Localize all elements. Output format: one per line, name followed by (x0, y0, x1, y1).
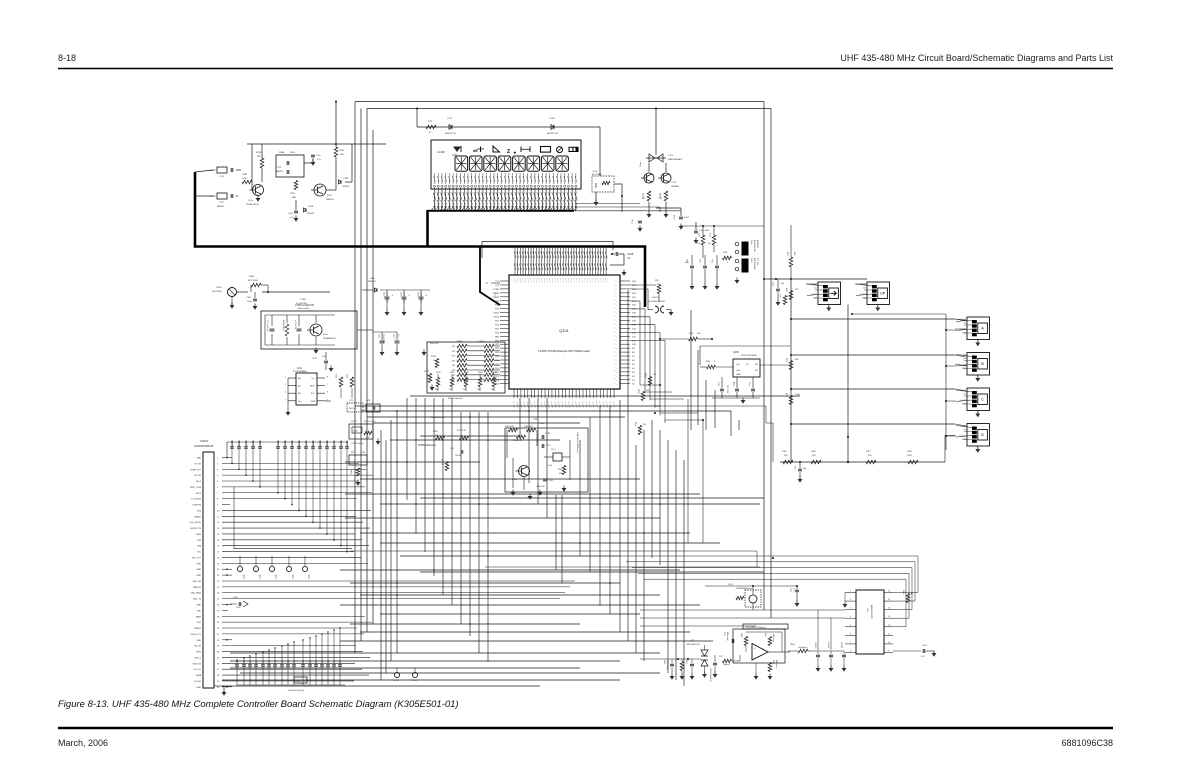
svg-text:(nx: (nx (964, 394, 967, 396)
svg-text:R/71: R/71 (699, 233, 701, 237)
svg-text:7A(wtvs): 7A(wtvs) (723, 663, 730, 666)
svg-text:33p: 33p (781, 283, 784, 285)
svg-text:RB521S: RB521S (368, 281, 376, 283)
svg-text:10k: 10k (463, 389, 466, 391)
svg-text:R1x6: R1x6 (764, 633, 766, 637)
svg-text:C/14: C/14 (297, 368, 303, 370)
svg-text:SOLDER SHORT: SOLDER SHORT (648, 301, 666, 303)
svg-text:2: 2 (850, 599, 851, 601)
svg-text:(nx: (nx (864, 288, 867, 290)
svg-text:(nx: (nx (964, 323, 967, 325)
svg-text:UWNBN: UWNBN (671, 186, 679, 188)
svg-text:TOC: TOC (197, 552, 202, 554)
svg-text:10k: 10k (426, 375, 429, 377)
svg-text:C132: C132 (795, 466, 797, 470)
svg-text:SDA: SDA (311, 400, 316, 403)
svg-text:March, 2006: March, 2006 (58, 738, 108, 748)
svg-text:R7B0: R7B0 (436, 372, 441, 374)
svg-text:1: 1 (285, 377, 286, 379)
svg-text:R115: R115 (785, 393, 787, 397)
svg-text:UHF 435-480 MHz Circuit Board/: UHF 435-480 MHz Circuit Board/Schematic … (840, 53, 1113, 63)
svg-text:56K: 56K (257, 156, 261, 158)
svg-text:MOD_COM: MOD_COM (190, 487, 201, 489)
svg-text:Ref.and (3): Ref.and (3) (298, 308, 309, 310)
svg-text:SAVE: SAVE (196, 615, 202, 618)
svg-text:14: 14 (888, 608, 890, 610)
svg-text:R/7x: R/7x (347, 374, 349, 378)
svg-text:0.001: 0.001 (685, 262, 689, 264)
svg-text:DATAO: DATAO (194, 515, 201, 518)
svg-text:C1N20-001: C1N20-001 (334, 440, 336, 449)
svg-text:SQL_MUTE: SQL_MUTE (190, 522, 202, 524)
svg-text:C/29: C/29 (312, 358, 317, 360)
svg-text:GENERATOR: GENERATOR (323, 337, 336, 340)
svg-text:0.001: 0.001 (684, 217, 690, 219)
svg-text:0.22: 0.22 (921, 656, 925, 658)
svg-text:C1N20-001: C1N20-001 (253, 440, 255, 449)
svg-text:EXOPUxGTA: EXOPUxGTA (753, 240, 756, 252)
svg-text:R7B3: R7B3 (478, 372, 483, 374)
svg-text:TEMP IN: TEMP IN (193, 587, 202, 589)
svg-text:DTMF IN: DTMF IN (193, 505, 202, 507)
svg-text:2SCA178Q-R: 2SCA178Q-R (246, 203, 259, 206)
svg-text:R105: R105 (249, 276, 255, 278)
svg-text:C1N20-001: C1N20-001 (246, 440, 248, 449)
svg-text:R779 4.7K: R779 4.7K (457, 430, 467, 432)
svg-text:UNLOCK: UNLOCK (192, 663, 201, 665)
svg-text:13: 13 (888, 616, 890, 618)
svg-text:10: 10 (888, 642, 890, 644)
svg-text:NSW: NSW (196, 534, 201, 536)
svg-text:dB: dB (473, 149, 478, 153)
svg-text:4: 4 (285, 399, 286, 401)
svg-text:UMW7N: UMW7N (326, 199, 334, 201)
svg-text:C79B: C79B (300, 299, 306, 301)
svg-text:C1N20-001: C1N20-001 (299, 440, 301, 449)
svg-text:x 2.2uF 5x: x 2.2uF 5x (294, 320, 296, 329)
svg-text:220K: 220K (242, 178, 247, 180)
svg-text:C/4x: C/4x (712, 259, 714, 263)
svg-text:10k: 10k (477, 389, 480, 391)
svg-text:16: 16 (888, 591, 890, 593)
svg-text:R7F: R7F (428, 121, 433, 123)
svg-text:Figure 8-13. UHF 435-480 MHz C: Figure 8-13. UHF 435-480 MHz Complete Co… (58, 699, 459, 710)
svg-text:R7S1: R7S1 (339, 150, 345, 152)
svg-text:10k: 10k (449, 389, 452, 391)
svg-text:C71a: C71a (668, 155, 674, 157)
svg-text:4.5V: 4.5V (548, 465, 553, 467)
svg-text:R1x7: R1x7 (685, 660, 687, 664)
svg-text:RYB2: RYB2 (637, 389, 639, 394)
svg-text:C/9x: C/9x (334, 660, 336, 663)
svg-text:C1N20-001: C1N20-001 (239, 440, 241, 449)
svg-text:R1B3: R1B3 (790, 644, 795, 646)
svg-text:MIC2: MIC2 (196, 493, 202, 495)
svg-text:C/9x: C/9x (263, 660, 265, 663)
svg-text:VSS1: VSS1 (493, 317, 499, 319)
svg-text:C112: C112 (393, 334, 395, 338)
svg-text:Z: Z (507, 149, 510, 155)
svg-text:R101: R101 (732, 382, 734, 386)
svg-text:C111: C111 (378, 334, 380, 338)
svg-text:CB-22P(x): CB-22P(x) (212, 291, 222, 293)
svg-text:3: 3 (285, 392, 286, 394)
svg-text:Q73B: Q73B (308, 206, 314, 208)
svg-text:C7/5: C7/5 (349, 400, 353, 402)
svg-text:11: 11 (888, 633, 890, 635)
svg-text:VSS3: VSS3 (493, 313, 499, 315)
svg-text:C114: C114 (383, 292, 385, 296)
svg-text:R113: R113 (785, 288, 787, 292)
svg-text:DAC_1V: DAC_1V (193, 598, 202, 601)
svg-text:0.22(knms)(x): 0.22(knms)(x) (666, 660, 668, 670)
svg-text:C/9x: C/9x (322, 660, 324, 663)
svg-text:47uF(16V): 47uF(16V) (382, 334, 384, 343)
svg-text:TX_MUTE: TX_MUTE (191, 499, 201, 501)
svg-text:DAC_RX: DAC_RX (193, 580, 202, 583)
svg-text:PLL_LE: PLL_LE (194, 669, 202, 671)
svg-text:VIM: VIM (197, 546, 201, 548)
svg-text:R/90: R/90 (706, 361, 710, 363)
svg-text:VIM: VIM (197, 540, 201, 542)
svg-text:TP114: TP114 (307, 574, 309, 579)
svg-text:S1x5: S1x5 (750, 240, 752, 244)
svg-text:C/9x: C/9x (244, 660, 246, 663)
svg-text:47K: 47K (697, 333, 701, 335)
svg-text:C17S: C17S (671, 182, 677, 184)
svg-text:C1N20-001: C1N20-001 (341, 440, 343, 449)
svg-text:C/9x: C/9x (269, 660, 271, 663)
svg-text:C/10: C/10 (717, 382, 719, 386)
svg-text:C108: C108 (627, 252, 634, 256)
svg-text:M101: M101 (217, 287, 223, 289)
svg-text:0.001(x8-15(22a)): 0.001(x8-15(22a)) (288, 690, 304, 692)
svg-text:2.2(V): 2.2(V) (353, 431, 358, 433)
svg-text:TEST: TEST (309, 386, 315, 388)
svg-text:470(wfvms): 470(wfvms) (775, 660, 777, 669)
svg-text:DAN-SERIALY: DAN-SERIALY (668, 158, 683, 161)
svg-text:NC: NC (755, 364, 759, 366)
svg-text:C116: C116 (417, 292, 419, 296)
svg-text:A/AXM40SW5x4P: A/AXM40SW5x4P (194, 445, 214, 448)
svg-text:C/2B: C/2B (233, 597, 238, 599)
svg-text:S1x2: S1x2 (750, 258, 752, 262)
svg-text:R7W 2: R7W 2 (351, 421, 357, 423)
svg-text:18K: 18K (340, 154, 344, 156)
svg-text:R1xx: R1xx (634, 422, 636, 426)
svg-text:C17S: C17S (276, 167, 282, 169)
svg-text:C-7Bx: C-7Bx (295, 681, 300, 683)
svg-text:HU302-Y11: HU302-Y11 (547, 133, 559, 135)
svg-text:C1N20-001: C1N20-001 (306, 440, 308, 449)
svg-text:DTA744EE(knms): DTA744EE(knms) (736, 587, 752, 590)
svg-text:C: C (981, 398, 984, 402)
svg-text:1: 1 (850, 591, 851, 593)
svg-text:10.0(x22 x22a): 10.0(x22 x22a) (364, 421, 376, 423)
svg-text:S-24CB08AFJ: S-24CB08AFJ (293, 370, 307, 373)
svg-text:R7B1: R7B1 (450, 372, 455, 374)
svg-text:C1N20-001: C1N20-001 (285, 440, 287, 449)
svg-text:0.22uF(100): 0.22uF(100) (296, 303, 307, 305)
svg-text:6: 6 (850, 633, 851, 635)
svg-text:C1x2 0.001: C1x2 0.001 (699, 230, 710, 232)
svg-text:C/55 0.22(6WfVCF): C/55 0.22(6WfVCF) (709, 668, 711, 682)
svg-text:C11F: C11F (592, 171, 598, 173)
svg-text:C1N20-001: C1N20-001 (313, 440, 315, 449)
svg-text:GND: GND (196, 687, 201, 689)
svg-text:120K: 120K (290, 152, 295, 154)
svg-text:R7W5: R7W5 (256, 152, 263, 154)
svg-text:CLOCK: CLOCK (194, 681, 202, 683)
svg-text:C/9x: C/9x (256, 660, 258, 663)
svg-text:12: 12 (888, 625, 890, 627)
svg-text:7.2H: 7.2H (361, 452, 366, 454)
svg-text:MIC1: MIC1 (196, 481, 202, 483)
svg-text:Q13/: Q13/ (728, 584, 733, 586)
svg-text:GND: GND (196, 640, 201, 642)
svg-text:R/7x: R/7x (336, 374, 338, 378)
svg-text:BTMP OUT: BTMP OUT (190, 469, 201, 471)
svg-text:R1xx: R1xx (640, 162, 642, 167)
svg-text:RYB3: RYB3 (644, 373, 646, 378)
svg-text:DETECT IN: DETECT IN (190, 528, 201, 530)
svg-text:1SS355: 1SS355 (342, 186, 350, 188)
svg-text:Q105: Q105 (733, 352, 739, 354)
svg-text:C1N20-001: C1N20-001 (278, 440, 280, 449)
svg-text:C17B: C17B (545, 433, 551, 435)
svg-text:7: 7 (850, 642, 851, 644)
svg-text:C/17 0.1: C/17 0.1 (814, 642, 816, 648)
svg-text:C/9x: C/9x (282, 660, 284, 663)
svg-text:C7M: C7M (366, 400, 370, 402)
svg-text:UP: UP (880, 292, 886, 296)
svg-text:C/1x 0.1: C/1x 0.1 (840, 642, 842, 648)
svg-text:MB88347HPFV: MB88347HPFV (870, 605, 872, 620)
svg-text:NOT USE: NOT USE (726, 385, 728, 394)
svg-text:R/72: R/72 (710, 233, 712, 237)
svg-text:0.1: 0.1 (397, 334, 399, 337)
svg-text:Out: Out (736, 363, 740, 366)
svg-text:TP113: TP113 (291, 574, 293, 579)
svg-text:C/O7: C/O7 (450, 448, 454, 450)
svg-text:10k: 10k (435, 389, 438, 391)
svg-text:10k: 10k (433, 360, 436, 362)
svg-text:(nx: (nx (964, 358, 967, 360)
svg-text:8: 8 (327, 377, 328, 379)
svg-text:R7xx 3D: R7xx 3D (430, 343, 439, 345)
svg-text:5V(In) OUT: 5V(In) OUT (190, 634, 201, 636)
svg-text:0AN222: 0AN222 (217, 205, 225, 208)
svg-text:C/43: C/43 (723, 632, 725, 636)
svg-text:PTT SW: PTT SW (756, 258, 758, 265)
svg-text:Q101: Q101 (559, 328, 570, 333)
svg-text:R7B4: R7B4 (492, 372, 497, 374)
svg-text:C/xx: C/xx (748, 382, 750, 386)
svg-text:C/9x: C/9x (294, 660, 296, 663)
svg-text:D: D (981, 433, 984, 437)
svg-text:33p: 33p (803, 468, 806, 470)
svg-text:R7A9: R7A9 (279, 151, 285, 154)
svg-text:C1N20-001: C1N20-001 (232, 440, 234, 449)
svg-text:U/WCON: U/WCON (536, 486, 545, 488)
svg-text:9: 9 (888, 650, 889, 652)
svg-text:C7xx: C7xx (316, 155, 321, 157)
svg-text:C/9x: C/9x (275, 660, 277, 663)
svg-text:R18x: R18x (558, 469, 562, 471)
svg-text:R7/2: R7/2 (780, 294, 782, 298)
svg-text:01CTRAS: 01CTRAS (592, 173, 602, 176)
svg-text:100K: 100K (907, 455, 912, 457)
svg-text:GND: GND (196, 569, 201, 571)
svg-text:RF8.2m: RF8.2m (349, 408, 356, 410)
svg-text:R7B4 10k(xw6): R7B4 10k(xw6) (418, 443, 436, 447)
svg-text:C77a 1uF 3V: C77a 1uF 3V (266, 320, 268, 332)
svg-text:4: 4 (850, 616, 851, 618)
svg-text:EXOPUxGEX: EXOPUxGEX (753, 258, 755, 270)
svg-text:1SS355: 1SS355 (307, 213, 315, 215)
svg-text:7: 7 (327, 384, 328, 386)
svg-text:C/1x 0.1: C/1x 0.1 (827, 642, 829, 648)
svg-text:NC: NC (755, 370, 759, 372)
svg-text:C/51: C/51 (690, 640, 694, 642)
svg-text:4.7u: 4.7u (290, 217, 294, 219)
svg-text:TP110: TP110 (242, 574, 244, 579)
svg-text:SQL IN: SQL IN (194, 646, 201, 648)
svg-text:CSA 306 (8 3886knms): CSA 306 (8 3886knms) (576, 432, 579, 453)
svg-text:R18x 47K: R18x 47K (505, 426, 514, 428)
svg-text:C1N20-001: C1N20-001 (292, 440, 294, 449)
svg-text:R717: R717 (351, 452, 356, 454)
svg-text:15: 15 (888, 599, 890, 601)
svg-text:GND: GND (736, 374, 741, 376)
svg-text:VOL IN: VOL IN (194, 475, 201, 477)
svg-text:R7B2: R7B2 (464, 372, 469, 374)
svg-text:NOT USE: NOT USE (248, 280, 258, 282)
svg-text:MON SW: MON SW (756, 240, 758, 248)
svg-text:1N4O(2FHFVCF): 1N4O(2FHFVCF) (686, 644, 700, 646)
svg-text:C/4x: C/4x (700, 259, 702, 263)
svg-text:NBK: NBK (292, 197, 297, 199)
svg-text:LC87F72C8A(flash)/LC877264(mas: LC87F72C8A(flash)/LC877264(mask) (538, 349, 590, 353)
svg-text:C1N20-001: C1N20-001 (260, 440, 262, 449)
svg-text:XW5V25G1A1R: XW5V25G1A1R (741, 354, 757, 357)
svg-text:6: 6 (327, 392, 328, 394)
svg-text:3 2 3 3: 3 2 3 3 (495, 291, 497, 298)
svg-text:C1N20-001: C1N20-001 (347, 440, 349, 449)
svg-text:C17L: C17L (447, 118, 453, 120)
svg-text:0.1: 0.1 (792, 588, 794, 591)
svg-text:C/9x: C/9x (303, 660, 305, 663)
svg-text:R7A7: R7A7 (242, 173, 248, 176)
svg-text:0.1: 0.1 (627, 256, 631, 260)
svg-text:R7W: R7W (643, 193, 645, 198)
svg-text:C15B: C15B (549, 118, 555, 120)
svg-text:C74B 0.22uF(100): C74B 0.22uF(100) (295, 305, 314, 307)
svg-text:CN101: CN101 (200, 439, 209, 443)
svg-text:0: 0 (714, 361, 715, 363)
svg-text:-: - (754, 656, 755, 659)
svg-text:COM0: COM0 (493, 289, 500, 291)
svg-text:C115: C115 (400, 292, 402, 296)
svg-text:GND: GND (196, 575, 201, 577)
svg-text:R7B1: R7B1 (431, 356, 437, 358)
svg-text:HU302-Y11: HU302-Y11 (445, 133, 457, 135)
svg-text:0AN222: 0AN222 (276, 170, 284, 173)
svg-text:R7W: R7W (660, 193, 662, 198)
svg-text:2: 2 (285, 384, 286, 386)
svg-text:C/9x: C/9x (340, 660, 342, 663)
svg-text:COM3: COM3 (493, 301, 500, 303)
svg-text:Q17a: Q17a (248, 200, 254, 202)
svg-text:TP111: TP111 (258, 574, 260, 579)
svg-text:DATA: DATA (196, 674, 202, 677)
svg-text:C140: C140 (922, 645, 927, 647)
svg-text:C/9x: C/9x (310, 660, 312, 663)
svg-text:47C: 47C (657, 284, 661, 286)
svg-text:3: 3 (850, 608, 851, 610)
svg-text:RESET: RESET (194, 628, 202, 630)
svg-text:C1N20-001: C1N20-001 (327, 440, 329, 449)
svg-text:R7B4 10(x/w6): R7B4 10(x/w6) (430, 417, 445, 419)
svg-text:RSSI: RSSI (196, 652, 201, 654)
svg-text:Sw101: Sw101 (652, 297, 659, 299)
svg-text:10k: 10k (491, 389, 494, 391)
svg-text:C147: C147 (789, 588, 791, 592)
svg-text:C73B: C73B (343, 178, 349, 180)
svg-text:R114: R114 (785, 358, 787, 362)
svg-text:R111: R111 (786, 252, 788, 256)
svg-text:C/9x: C/9x (237, 660, 239, 663)
svg-text:C/9x: C/9x (288, 660, 290, 663)
svg-text:100(wfvms): 100(wfvms) (798, 647, 808, 649)
svg-text:C1N20-001: C1N20-001 (320, 440, 322, 449)
svg-text:100OPA: 100OPA (455, 454, 462, 457)
svg-text:8: 8 (850, 650, 851, 652)
svg-text:R7B4 10(x/w6): R7B4 10(x/w6) (448, 398, 463, 400)
svg-text:C/9x: C/9x (328, 660, 330, 663)
svg-text:GND: GND (196, 605, 201, 607)
svg-text:PHD: PHD (197, 563, 202, 565)
svg-text:C7W: C7W (533, 419, 538, 421)
svg-text:VDD: VDD (197, 622, 202, 624)
svg-text:R7BL: R7BL (433, 431, 438, 433)
svg-text:C/9x: C/9x (250, 660, 252, 663)
svg-text:8-18: 8-18 (58, 53, 76, 63)
svg-text:C7/B 0.1uF (x): C7/B 0.1uF (x) (351, 443, 364, 445)
svg-text:C131: C131 (773, 282, 775, 287)
svg-text:LC10X: LC10X (437, 150, 445, 154)
svg-text:560K(V)H(x): 560K(V)H(x) (282, 320, 284, 331)
svg-text:C/9x: C/9x (316, 660, 318, 663)
svg-text:TP112: TP112 (274, 574, 276, 579)
svg-text:DAC_BIAS: DAC_BIAS (191, 592, 202, 595)
svg-text:R/7B: R/7B (723, 252, 728, 254)
svg-text:0.001: 0.001 (236, 607, 241, 609)
svg-text:0: 0 (727, 262, 728, 264)
svg-text:R/2x 1A: R/2x 1A (441, 458, 444, 465)
svg-text:RIVT-1: RIVT-1 (195, 657, 202, 659)
svg-text:MIC: MIC (197, 610, 201, 612)
svg-text:5: 5 (850, 625, 851, 627)
svg-text:(nx: (nx (815, 288, 818, 290)
svg-text:GND: GND (196, 458, 201, 460)
svg-text:ST_BY: ST_BY (194, 463, 201, 465)
svg-text:4.7u: 4.7u (317, 159, 321, 161)
svg-text:(nx: (nx (964, 429, 967, 431)
svg-text:6881096C38: 6881096C38 (1061, 738, 1113, 748)
svg-text:VSS: VSS (197, 510, 202, 512)
svg-text:4.N2: 4.N2 (366, 437, 370, 439)
